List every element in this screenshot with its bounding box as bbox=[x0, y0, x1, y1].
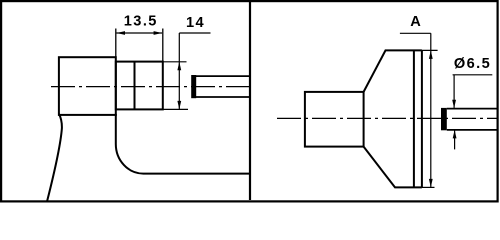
svg-text:14: 14 bbox=[186, 15, 205, 31]
svg-text:Ø6.5: Ø6.5 bbox=[454, 56, 491, 72]
svg-text:13.5: 13.5 bbox=[124, 14, 158, 30]
svg-text:A: A bbox=[410, 14, 422, 30]
